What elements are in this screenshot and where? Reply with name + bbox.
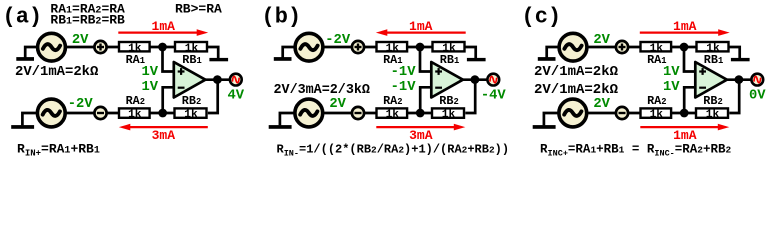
plus terminal (V1b) <box>352 41 364 53</box>
wire (top: ground to RA1) <box>283 47 376 58</box>
AC source V2a (bottom) <box>37 99 65 127</box>
resistor RB1 <box>433 42 465 51</box>
svg-text:0V: 0V <box>749 89 766 104</box>
resistor RB2 <box>432 108 464 117</box>
svg-text:RINC+=RA1+RB1 = RINC-=RA2+RB2: RINC+=RA1+RB1 = RINC-=RA2+RB2 <box>540 142 732 158</box>
resistor RA2 <box>641 108 672 117</box>
svg-text:1mA: 1mA <box>673 128 697 143</box>
svg-text:1k: 1k <box>128 109 142 121</box>
svg-text:1mA: 1mA <box>409 19 433 34</box>
svg-text:-2V: -2V <box>325 33 351 48</box>
wire (RA2 to RB2) <box>149 112 176 115</box>
voltage probe OUTa <box>230 74 242 86</box>
junction dot (bottom node) <box>416 109 425 118</box>
junction dot (output node) <box>735 75 744 84</box>
svg-text:(c): (c) <box>522 4 562 29</box>
svg-text:RA2: RA2 <box>647 94 666 108</box>
svg-text:3mA: 3mA <box>152 128 176 143</box>
voltage probe OUTc <box>751 74 763 86</box>
svg-text:RA2: RA2 <box>383 94 402 108</box>
current arrow 1mA <box>376 29 466 36</box>
ground (top source c) <box>538 57 556 61</box>
wire (RA2 to RB2) <box>407 112 434 115</box>
svg-text:2V/3mA=2/3kΩ: 2V/3mA=2/3kΩ <box>274 83 370 98</box>
svg-text:3mA: 3mA <box>409 128 433 143</box>
svg-text:1V: 1V <box>663 65 680 80</box>
current arrow 1mA <box>640 124 729 131</box>
svg-text:RIN-=1/((2*(RB2/RA2)+1)/(RA2+R: RIN-=1/((2*(RB2/RA2)+1)/(RA2+RB2)) <box>277 142 510 158</box>
AC source V2b (bottom) <box>295 99 323 127</box>
wire (op-amp output) <box>727 78 751 81</box>
wire (RB1 to ground) <box>464 47 476 58</box>
ground (RB1) <box>467 58 486 61</box>
plus terminal (V1c) <box>616 41 628 53</box>
wire (RB1 to ground) <box>207 47 219 58</box>
wire (RA2 to RB2) <box>671 112 698 115</box>
svg-text:RB>=RA: RB>=RA <box>175 2 222 17</box>
current arrow 3mA <box>376 124 465 131</box>
wire (RB1 to ground) <box>728 47 740 58</box>
resistor RA2 <box>119 108 150 117</box>
svg-text:RB1=RB2=RB: RB1=RB2=RB <box>50 13 125 28</box>
ground (RB1) <box>209 58 228 61</box>
resistor RA1 <box>119 42 150 51</box>
voltage probe OUTb <box>487 74 499 86</box>
svg-text:2V/1mA=2kΩ: 2V/1mA=2kΩ <box>534 82 619 98</box>
svg-text:1k: 1k <box>650 109 664 121</box>
svg-text:2V: 2V <box>593 33 610 48</box>
svg-text:2V/1mA=2kΩ: 2V/1mA=2kΩ <box>534 64 619 80</box>
resistor RB1 <box>697 42 729 51</box>
svg-text:-4V: -4V <box>481 89 507 104</box>
AC source V2c (bottom) <box>559 99 587 127</box>
svg-text:RB1: RB1 <box>440 53 459 67</box>
resistor RA1 <box>641 42 672 51</box>
wire (RA1 to RB1) <box>671 46 698 49</box>
ground (top source b) <box>274 57 292 61</box>
svg-text:RB2: RB2 <box>439 94 458 108</box>
resistor RA2 <box>377 108 408 117</box>
ground (bottom source b) <box>269 125 292 129</box>
wire (- input) <box>684 87 695 113</box>
feedback wire (output to RB2) <box>729 80 739 113</box>
wire (- input) <box>420 87 431 113</box>
svg-text:RB1: RB1 <box>182 53 201 67</box>
resistor RA1 <box>377 42 408 51</box>
op-amp U1 <box>431 62 463 98</box>
svg-text:2V: 2V <box>329 97 346 112</box>
junction dot (top node) <box>416 43 425 52</box>
svg-text:-1V: -1V <box>391 65 417 80</box>
current arrow 3mA <box>119 124 208 131</box>
ground (bottom source c) <box>533 125 556 129</box>
minus terminal (V2b) <box>352 107 364 119</box>
op-amp U1 <box>174 62 206 98</box>
minus terminal (V2c) <box>616 107 628 119</box>
wire (bottom: ground to RA2) <box>280 113 376 125</box>
svg-text:2V: 2V <box>72 33 89 48</box>
svg-text:RB2: RB2 <box>182 94 201 108</box>
svg-text:1V: 1V <box>141 65 158 80</box>
plus terminal (V1a) <box>94 41 106 53</box>
AC source V1b (top) <box>295 33 323 61</box>
wire (+ input) <box>420 47 431 72</box>
ground (bottom source a) <box>11 125 34 129</box>
wire (bottom: ground to RA2) <box>22 113 118 125</box>
wire (top: ground to RA1) <box>25 47 118 58</box>
svg-text:4V: 4V <box>228 89 245 104</box>
svg-text:1k: 1k <box>386 109 400 121</box>
svg-text:RB1: RB1 <box>704 53 723 67</box>
svg-text:RB2: RB2 <box>703 94 722 108</box>
op-amp U1 <box>695 62 727 98</box>
junction dot (top node) <box>158 43 167 52</box>
AC source V1c (top) <box>559 33 587 61</box>
svg-text:1mA: 1mA <box>673 19 697 34</box>
resistor RB2 <box>175 108 207 117</box>
feedback wire (output to RB2) <box>208 80 218 113</box>
wire (top: ground to RA1) <box>547 47 640 58</box>
svg-text:1k: 1k <box>442 109 456 121</box>
wire (+ input) <box>684 47 695 72</box>
wire (op-amp output) <box>463 78 487 81</box>
svg-text:RA2: RA2 <box>126 94 145 108</box>
svg-text:1V: 1V <box>141 80 158 95</box>
wire (+ input) <box>163 47 174 72</box>
svg-text:-1V: -1V <box>391 80 417 95</box>
svg-text:2V/1mA=2kΩ: 2V/1mA=2kΩ <box>15 64 98 80</box>
feedback wire (output to RB2) <box>465 80 475 113</box>
minus terminal (V2a) <box>94 107 106 119</box>
junction dot (output node) <box>213 75 222 84</box>
current arrow 1mA <box>640 29 730 36</box>
svg-text:-2V: -2V <box>68 97 94 112</box>
wire (RA1 to RB1) <box>407 46 434 49</box>
svg-text:(b): (b) <box>262 4 302 29</box>
junction dot (top node) <box>680 43 689 52</box>
svg-text:2V: 2V <box>593 97 610 112</box>
wire (bottom: ground to RA2) <box>544 113 640 125</box>
wire (- input) <box>163 87 174 113</box>
AC source V1a (top) <box>38 33 66 61</box>
svg-text:(a): (a) <box>3 4 43 29</box>
junction dot (output node) <box>471 75 480 84</box>
current arrow 1mA <box>118 29 208 36</box>
wire (RA1 to RB1) <box>149 46 176 49</box>
resistor RB1 <box>175 42 207 51</box>
svg-text:1k: 1k <box>184 109 198 121</box>
ground (top source a) <box>16 57 34 61</box>
wire (op-amp output) <box>205 78 229 81</box>
junction dot (bottom node) <box>680 109 689 118</box>
junction dot (bottom node) <box>158 109 167 118</box>
svg-text:1mA: 1mA <box>152 19 176 34</box>
svg-text:1V: 1V <box>663 80 680 95</box>
resistor RB2 <box>696 108 728 117</box>
svg-text:1k: 1k <box>706 109 720 121</box>
ground (RB1) <box>731 58 750 61</box>
